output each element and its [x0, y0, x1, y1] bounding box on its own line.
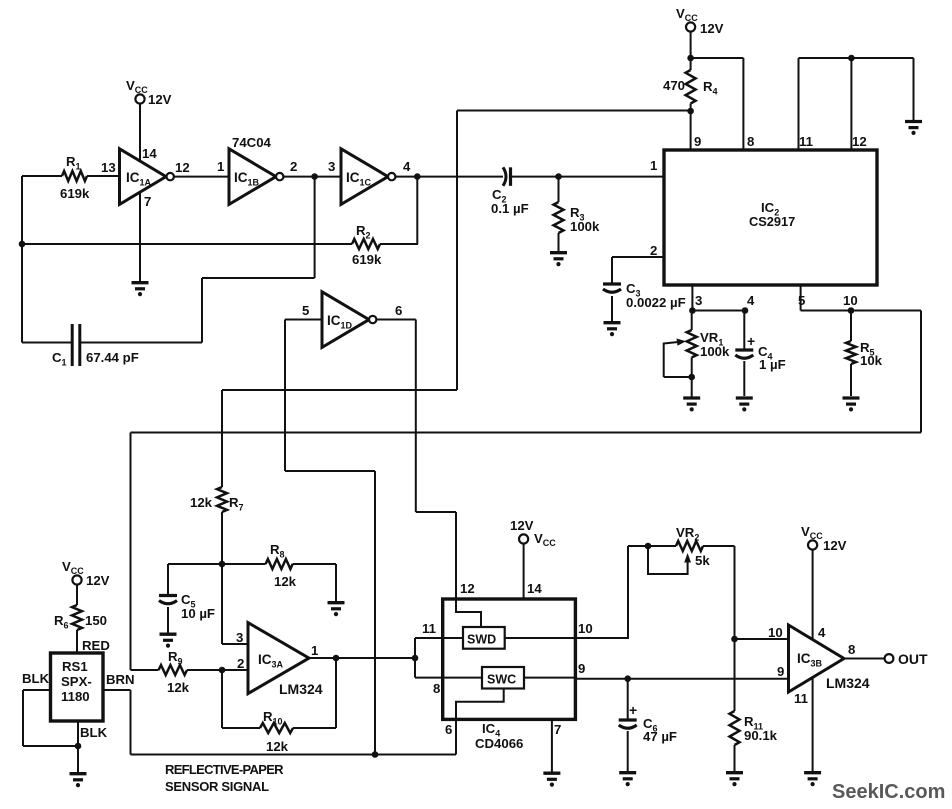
- ground pin 7 4066: [543, 772, 560, 775]
- svg-text:SWC: SWC: [487, 673, 516, 687]
- svg-text:619k: 619k: [352, 252, 382, 267]
- wire IC1A pin 7 to ground: [139, 192, 141, 282]
- svg-text:10k: 10k: [860, 353, 883, 368]
- svg-text:BLK: BLK: [22, 671, 50, 686]
- wire pin4 down to R2: [416, 177, 418, 244]
- OUT terminal circle: [885, 654, 894, 663]
- wire bus to R7 horizontal: [222, 389, 457, 391]
- wire pin 9 row to IC3B: [575, 678, 788, 680]
- svg-text:14: 14: [142, 146, 157, 161]
- capacitor C5: [159, 594, 177, 597]
- svg-text:67.44 pF: 67.44 pF: [86, 350, 139, 365]
- ground IC3B pin 11: [804, 771, 821, 774]
- wire BLK bottom horizontal: [23, 745, 78, 747]
- ground C6: [619, 771, 636, 774]
- wire pin 11 vertical: [798, 58, 800, 150]
- wire SWC bottom internal: [456, 689, 504, 720]
- wire C5 bottom lead: [167, 607, 169, 633]
- op-amp U IC1A inverter triangle: [120, 149, 167, 205]
- inverter bubble IC1A output: [167, 173, 174, 180]
- node junction pin4 / R2: [414, 173, 421, 180]
- IC U4 CD4066 box: [443, 599, 576, 719]
- wire C4 bottom lead: [743, 361, 745, 396]
- wire IC1D pin5 down: [284, 320, 286, 472]
- wire C6 top lead: [627, 679, 629, 720]
- wire sensor signal row: [131, 754, 457, 756]
- svg-text:12k: 12k: [274, 574, 297, 589]
- wire C5 top lead: [167, 564, 169, 596]
- potentiometer VR2: [676, 541, 703, 551]
- wire R5 top lead: [850, 311, 852, 342]
- svg-text:12V: 12V: [700, 21, 724, 36]
- wire sensor bus left drop: [130, 433, 132, 671]
- svg-text:3: 3: [236, 630, 243, 645]
- wire pin 14 vertical: [523, 544, 525, 599]
- svg-text:10: 10: [768, 625, 783, 640]
- svg-text:5: 5: [798, 293, 805, 308]
- node junction R7/R8/C5: [219, 561, 226, 568]
- node junction pin 12 bus: [848, 55, 855, 62]
- wire C3 top lead: [611, 257, 613, 284]
- ground VR1: [683, 396, 700, 399]
- svg-text:74C04: 74C04: [232, 135, 272, 150]
- resistor R9: [159, 665, 187, 675]
- resistor R3: [554, 202, 564, 233]
- svg-text:2: 2: [650, 243, 657, 258]
- wire IC3A pin 3 lead: [222, 643, 248, 645]
- wire BRN lead: [103, 689, 131, 691]
- svg-text:6: 6: [445, 722, 452, 737]
- wire pin12 internal: [456, 599, 481, 627]
- wire IC1A output to IC1B input: [174, 176, 229, 178]
- svg-text:4: 4: [818, 625, 826, 640]
- wire R1 input segment: [22, 175, 62, 177]
- svg-text:+: +: [747, 333, 755, 349]
- wire R3 top lead: [558, 177, 560, 202]
- node junction Vcc / pin8 branch: [687, 55, 694, 62]
- svg-text:1: 1: [311, 643, 318, 658]
- wire IC1B output to IC1C input: [283, 176, 341, 178]
- ground IC1A pin 7: [132, 281, 149, 284]
- wire R11 top vertical: [734, 639, 736, 711]
- svg-text:3: 3: [328, 159, 335, 174]
- switch SWC box: [482, 667, 524, 689]
- svg-text:14: 14: [527, 581, 542, 596]
- svg-text:12V: 12V: [148, 92, 172, 107]
- wire R9 right lead: [187, 669, 248, 671]
- svg-text:12: 12: [852, 134, 867, 149]
- Vcc supply circle IC1A: [135, 94, 144, 103]
- svg-text:10: 10: [578, 621, 593, 636]
- wire R8 right lead: [293, 563, 336, 565]
- svg-text:150: 150: [85, 613, 107, 628]
- svg-text:SENSOR SIGNAL: SENSOR SIGNAL: [165, 779, 269, 794]
- capacitor C2: [503, 167, 506, 186]
- wire R8 right drop to ground: [335, 564, 337, 601]
- wire IC1D pin5 lead: [285, 319, 322, 321]
- ground top right: [905, 120, 922, 123]
- svg-text:12: 12: [460, 581, 475, 596]
- node junction output/R10: [333, 655, 340, 662]
- wire VR1 bottom lead: [691, 357, 693, 377]
- resistor R7: [217, 487, 227, 512]
- node junction C6: [624, 675, 631, 682]
- svg-text:7: 7: [554, 722, 561, 737]
- node junction VR2 wiper: [645, 543, 652, 550]
- wire R7 top vertical: [221, 390, 223, 487]
- VR2 wiper arrow: [684, 553, 691, 563]
- wire sensor bus horizontal: [131, 432, 922, 434]
- svg-text:100k: 100k: [700, 344, 730, 359]
- VR2 wiper bracket: [648, 546, 688, 574]
- wire VR2 right segment: [703, 545, 735, 547]
- wire Vcc to R4: [690, 32, 692, 70]
- wire pin 8 vertical: [742, 58, 744, 150]
- wire stepped C1 branch vertical: [201, 278, 203, 343]
- svg-text:619k: 619k: [60, 186, 90, 201]
- wire IC3A output row: [309, 657, 415, 659]
- svg-text:8: 8: [747, 134, 754, 149]
- wire R4-node bus vertical: [456, 111, 458, 391]
- svg-text:LM324: LM324: [826, 675, 870, 691]
- svg-text:13: 13: [101, 160, 116, 175]
- svg-text:2: 2: [237, 656, 244, 671]
- wire IC3B pin 4 vertical: [812, 550, 814, 640]
- svg-text:4: 4: [403, 159, 411, 174]
- capacitor C4: [735, 348, 753, 351]
- wire IC3B output: [844, 658, 885, 660]
- svg-text:1180: 1180: [61, 689, 90, 704]
- capacitor C6: [619, 718, 637, 721]
- wire jog to pin12: [416, 511, 456, 513]
- resistor R6: [72, 605, 82, 630]
- node junction pin 4: [742, 307, 749, 314]
- wire sensor node vertical: [374, 471, 376, 755]
- svg-text:9: 9: [578, 661, 585, 676]
- svg-text:9: 9: [694, 134, 701, 149]
- svg-text:CS2917: CS2917: [749, 214, 795, 229]
- Vcc supply circle 4066: [519, 534, 528, 543]
- node junction R4 bottom / pin9: [687, 108, 694, 115]
- wire C1 bottom right segment: [81, 342, 203, 344]
- svg-text:SPX-: SPX-: [61, 674, 92, 689]
- svg-text:1 µF: 1 µF: [759, 357, 786, 372]
- wire pin 5 vertical: [800, 285, 802, 311]
- Vcc supply circle IC3B: [808, 540, 817, 549]
- resistor R10: [260, 723, 293, 733]
- wire BLK left drop: [22, 690, 24, 746]
- VR1 wiper arrow: [664, 342, 678, 377]
- svg-text:470: 470: [663, 78, 685, 93]
- wire R2 row: [22, 243, 352, 245]
- ground C5: [160, 633, 177, 636]
- svg-text:12k: 12k: [266, 739, 289, 754]
- svg-text:10: 10: [843, 293, 858, 308]
- wire R5 bottom lead: [850, 364, 852, 396]
- wire IC1C output to C2: [395, 176, 503, 178]
- op-amp IC3B triangle: [789, 625, 845, 692]
- inverter bubble IC1C output: [388, 173, 395, 180]
- wire left vertical rail: [21, 176, 23, 343]
- ground RS1: [70, 772, 87, 775]
- Vcc supply circle IC2: [686, 22, 695, 31]
- wire pin 9 vertical: [690, 104, 692, 151]
- wire pin 10 to VR2 rise: [575, 546, 628, 638]
- wire C1 bottom left segment: [22, 342, 72, 344]
- svg-text:6: 6: [395, 303, 402, 318]
- svg-text:0.1 µF: 0.1 µF: [491, 201, 529, 216]
- wire IC1A pin 14 to Vcc: [139, 104, 141, 161]
- wire pin 11 lead: [415, 637, 463, 639]
- svg-text:11: 11: [799, 134, 813, 149]
- wire R1 to IC1A pin 13: [87, 175, 120, 177]
- ground R5: [843, 396, 860, 399]
- wire ground drop top right: [913, 58, 915, 120]
- node junction IC1B output / C1 branch: [311, 173, 318, 180]
- node junction output/4066: [412, 655, 419, 662]
- svg-text:2: 2: [290, 159, 297, 174]
- capacitor C3: [603, 282, 621, 285]
- wire pin 8 lead: [415, 677, 482, 679]
- svg-text:12: 12: [175, 160, 190, 175]
- resistor R1: [62, 171, 87, 181]
- wire R3 bottom lead: [558, 233, 560, 252]
- svg-text:4: 4: [747, 293, 755, 308]
- wire IC3B pin 11 vertical: [812, 678, 814, 772]
- svg-text:RS1: RS1: [62, 659, 88, 674]
- wire R6 to RS1: [76, 630, 78, 653]
- svg-text:12V: 12V: [823, 538, 847, 553]
- wire pin 3 vertical: [691, 285, 693, 311]
- wire C4 top lead: [743, 311, 745, 351]
- ground C3: [604, 321, 621, 324]
- wire pin 9 internal: [524, 677, 575, 679]
- svg-text:SeekIC.com: SeekIC.com: [832, 781, 945, 803]
- wire BLK left lead: [23, 689, 51, 691]
- wire Vcc to R6: [76, 585, 78, 605]
- inverter bubble IC1B output: [276, 173, 283, 180]
- node junction pin 3: [689, 307, 696, 314]
- node junction left rail / R2: [19, 241, 26, 248]
- svg-text:LM324: LM324: [279, 681, 323, 697]
- svg-text:100k: 100k: [570, 219, 600, 234]
- capacitor C1 plates: [71, 324, 74, 366]
- wire C3 bottom lead: [611, 296, 613, 322]
- svg-text:11: 11: [422, 621, 436, 636]
- node junction sensor signal / pin5 branch: [372, 751, 379, 758]
- wire C6 bottom lead: [627, 731, 629, 772]
- wire RS1 bottom to ground: [77, 721, 79, 773]
- inverter IC1B triangle: [229, 149, 276, 205]
- wire R10 right rise to output: [335, 658, 337, 728]
- wire BRN drop: [130, 690, 132, 755]
- svg-text:10 µF: 10 µF: [181, 606, 215, 621]
- svg-text:1: 1: [217, 159, 224, 174]
- ground R3: [550, 251, 567, 254]
- svg-text:SWD: SWD: [467, 633, 496, 647]
- resistor R5: [846, 341, 856, 364]
- potentiometer VR1: [687, 330, 697, 357]
- wire VR2 left segment: [628, 545, 676, 547]
- svg-text:12k: 12k: [167, 680, 190, 695]
- inverter IC1C triangle: [341, 149, 388, 205]
- wire R10 left drop: [221, 670, 223, 728]
- svg-text:BRN: BRN: [106, 672, 135, 687]
- wire R10 right lead: [293, 727, 336, 729]
- ground C4: [736, 396, 753, 399]
- wire pin3-pin4 bus: [692, 310, 745, 312]
- node junction R3: [555, 173, 562, 180]
- wire VR1 wiper to bottom: [664, 376, 692, 378]
- wire pin3 branch vertical: [221, 564, 223, 644]
- svg-text:CD4066: CD4066: [475, 736, 523, 751]
- svg-text:47 µF: 47 µF: [643, 729, 677, 744]
- wire pins 11-8 tie: [414, 638, 416, 678]
- node junction pin 10: [848, 307, 855, 314]
- svg-text:+: +: [629, 702, 637, 718]
- wire stepped C1 branch horizontal: [202, 277, 315, 279]
- wire R8 left lead: [222, 563, 266, 565]
- svg-text:8: 8: [433, 681, 440, 696]
- wire VR1 top lead: [691, 311, 693, 331]
- node junction RS1 ground: [75, 743, 82, 750]
- node junction VR2 / R11 / pin10: [731, 636, 738, 643]
- svg-text:9: 9: [777, 664, 784, 679]
- svg-text:5k: 5k: [695, 553, 710, 568]
- wire R7 bottom lead: [221, 512, 223, 564]
- wire pin 2 horizontal: [612, 256, 664, 258]
- Vcc supply circle RS1: [72, 575, 81, 584]
- svg-text:REFLECTIVE-PAPER: REFLECTIVE-PAPER: [165, 762, 284, 777]
- wire pin 12 vertical: [850, 58, 852, 150]
- resistor R2: [352, 239, 380, 249]
- svg-text:3: 3: [695, 293, 702, 308]
- wire VR2 right drop: [734, 546, 736, 639]
- wire R11 bottom lead: [734, 745, 736, 772]
- svg-text:OUT: OUT: [898, 651, 928, 667]
- svg-text:12k: 12k: [190, 495, 213, 510]
- wire pin8 branch horizontal: [691, 57, 744, 59]
- wire pin11-pin12-ground bus: [799, 57, 914, 59]
- wire IC1D output right: [376, 319, 415, 321]
- svg-text:12V: 12V: [86, 573, 110, 588]
- svg-text:8: 8: [848, 642, 855, 657]
- node junction VR1 bottom: [688, 374, 695, 381]
- inverter bubble IC1D output: [369, 316, 376, 323]
- svg-text:90.1k: 90.1k: [744, 728, 778, 743]
- wire IC3B pin 10 lead: [735, 638, 789, 640]
- ground R11: [726, 771, 743, 774]
- resistor R4: [686, 70, 696, 104]
- svg-text:1: 1: [650, 158, 657, 173]
- wire R4-node bus horizontal: [457, 110, 691, 112]
- wire stepped C1 branch vertical from IC1B out: [314, 177, 316, 278]
- op-amp IC3A triangle: [248, 623, 309, 694]
- wire pin5-pin10 bus: [801, 310, 921, 312]
- wire C2 to IC2 pin 1: [511, 176, 665, 178]
- svg-text:BLK: BLK: [80, 725, 108, 740]
- wire right rail down: [920, 311, 922, 433]
- wire R2 to pin4 vertical: [380, 243, 418, 245]
- svg-text:RED: RED: [82, 638, 110, 653]
- IC U2 CS2917 box: [664, 150, 877, 285]
- wire pin 7 drop: [551, 719, 553, 772]
- wire R10 left lead: [222, 727, 260, 729]
- wire IC1D out down to 4066 pin12 route: [415, 320, 417, 513]
- wire pin5 horizontal to sensor node: [285, 470, 375, 472]
- resistor R11: [730, 711, 740, 745]
- svg-text:7: 7: [144, 194, 151, 209]
- wire pin 6 drop: [455, 719, 457, 754]
- svg-text:5: 5: [302, 303, 309, 318]
- wire pin 10 internal: [505, 637, 576, 639]
- switch SWD box: [463, 627, 505, 649]
- svg-text:0.0022 µF: 0.0022 µF: [626, 295, 686, 310]
- sensor RS1 SPX-1180 box: [51, 653, 104, 721]
- wire R9 left lead: [131, 669, 159, 671]
- node junction pin2/R9/R10: [219, 667, 226, 674]
- svg-text:12V: 12V: [510, 518, 534, 533]
- wire VR1 to ground: [691, 377, 693, 397]
- wire pin12 drop: [455, 512, 457, 600]
- ground R8: [328, 601, 345, 604]
- svg-text:11: 11: [794, 691, 808, 706]
- resistor R8: [266, 559, 293, 569]
- wire C5 branch horizontal: [168, 563, 222, 565]
- inverter IC1D triangle: [322, 292, 369, 348]
